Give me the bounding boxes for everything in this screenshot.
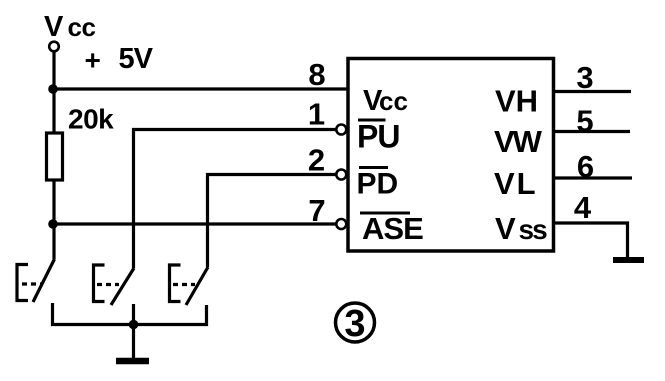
svg-text:3: 3	[576, 60, 593, 95]
svg-text:2: 2	[308, 143, 325, 178]
svg-text:6: 6	[577, 149, 594, 184]
svg-text:4: 4	[574, 190, 592, 225]
svg-text:PD: PD	[357, 168, 399, 201]
svg-text:VL: VL	[494, 166, 538, 201]
svg-text:ss: ss	[519, 214, 548, 245]
svg-text:PU: PU	[357, 119, 399, 155]
svg-text:ASE: ASE	[362, 211, 423, 246]
svg-text:5V: 5V	[119, 43, 154, 75]
svg-text:V: V	[495, 211, 516, 246]
svg-text:1: 1	[308, 97, 325, 132]
svg-text:3: 3	[344, 303, 365, 345]
svg-text:VW: VW	[494, 124, 543, 159]
svg-text:cc: cc	[68, 12, 96, 42]
svg-text:V: V	[44, 11, 64, 43]
svg-text:VH: VH	[495, 84, 538, 119]
svg-text:+: +	[85, 45, 101, 76]
svg-text:20k: 20k	[68, 104, 114, 135]
svg-text:cc: cc	[379, 86, 408, 116]
svg-text:7: 7	[308, 193, 325, 228]
svg-text:5: 5	[576, 104, 593, 139]
svg-text:8: 8	[308, 57, 325, 92]
